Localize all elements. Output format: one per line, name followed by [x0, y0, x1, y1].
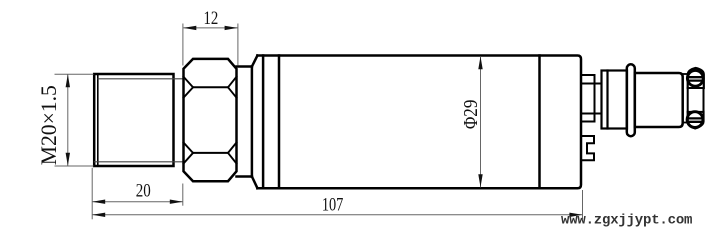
- middle block between screws: [688, 88, 704, 112]
- svg-text:Φ29: Φ29: [460, 100, 482, 129]
- end cap link ticks: [683, 74, 688, 123]
- dimension 12: [183, 24, 238, 66]
- connector end cap outline: [688, 68, 704, 128]
- hex chamfer diagonals: [184, 77, 237, 164]
- neck between hex and collar: [237, 67, 252, 177]
- screw top: [687, 70, 703, 86]
- dimension 107: [92, 190, 582, 219]
- svg-text:www.zgxjjypt.com: www.zgxjjypt.com: [561, 213, 692, 229]
- thread minor diameter lines: [94, 79, 183, 162]
- hex nut outline: [184, 59, 237, 181]
- dimension 20: [92, 168, 183, 220]
- dimension phi29: [480, 56, 482, 187]
- body step verticals: [263, 56, 539, 189]
- thread section outline: [94, 74, 173, 166]
- connector stub on end cap: [581, 75, 602, 122]
- svg-text:12: 12: [204, 8, 219, 29]
- screw bottom: [687, 112, 703, 128]
- svg-text:M20×1.5: M20×1.5: [36, 85, 61, 165]
- connector shell: [635, 73, 683, 127]
- dimension M20x1.5: [55, 74, 94, 166]
- svg-text:107: 107: [322, 195, 344, 216]
- hex face lines: [193, 87, 228, 153]
- connector flange ring: [627, 64, 635, 136]
- main body outline: [257, 56, 581, 189]
- collar chamfer diagonals: [252, 56, 258, 189]
- svg-text:20: 20: [136, 181, 151, 202]
- connector base block: [602, 71, 628, 129]
- keyway tab: [581, 136, 594, 160]
